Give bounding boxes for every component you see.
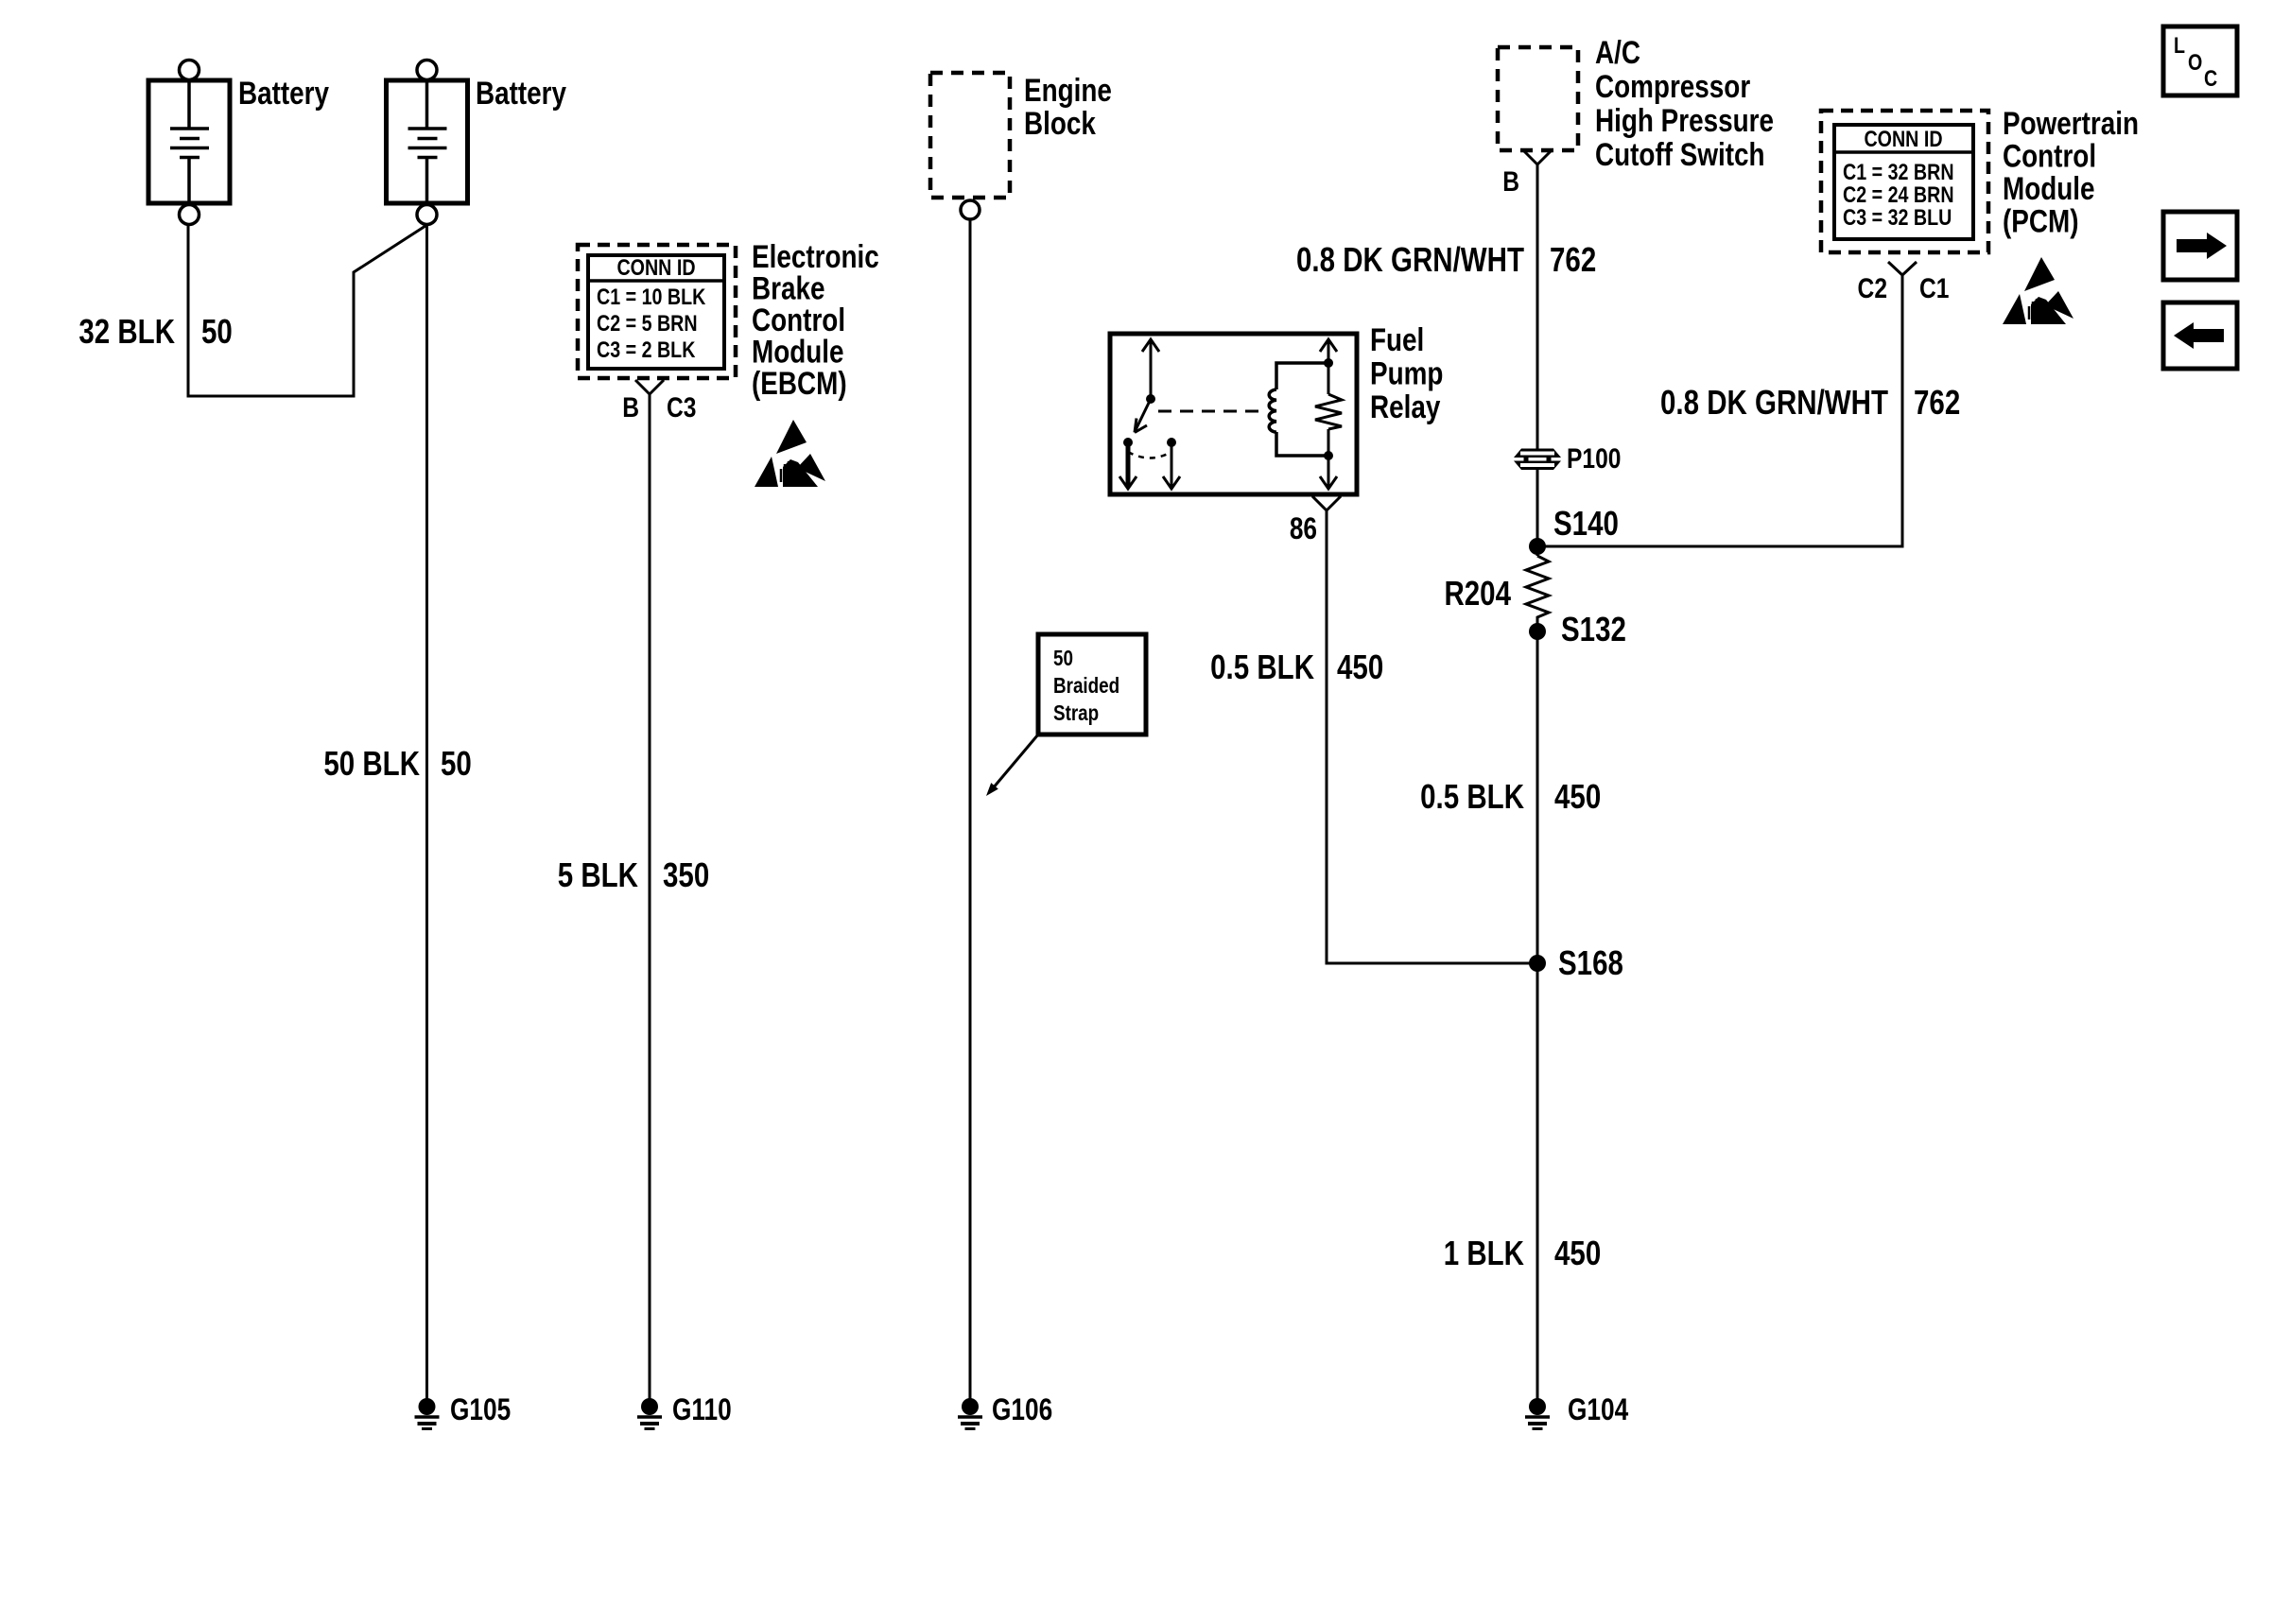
LOC legend box bbox=[2163, 26, 2237, 95]
svg-text:Fuel: Fuel bbox=[1370, 321, 1424, 357]
svg-text:50: 50 bbox=[441, 744, 472, 782]
svg-text:32 BLK: 32 BLK bbox=[78, 312, 175, 350]
svg-text:1 BLK: 1 BLK bbox=[1444, 1234, 1524, 1271]
svg-text:50 BLK: 50 BLK bbox=[323, 744, 420, 782]
svg-text:L: L bbox=[2174, 32, 2185, 58]
relay pin 86 fork bbox=[1312, 496, 1341, 510]
svg-text:CONN ID: CONN ID bbox=[1864, 126, 1942, 151]
svg-text:5 BLK: 5 BLK bbox=[558, 855, 638, 893]
svg-text:C1 = 10 BLK: C1 = 10 BLK bbox=[597, 284, 705, 309]
svg-text:C2 = 5 BRN: C2 = 5 BRN bbox=[597, 310, 698, 336]
wire battery B2 to G105 bbox=[425, 224, 428, 1407]
engine block terminal circle bbox=[961, 200, 980, 219]
relay contact pin right bbox=[1167, 438, 1176, 447]
relay switch common up arrow bbox=[1150, 340, 1153, 399]
svg-text:0.5 BLK: 0.5 BLK bbox=[1210, 648, 1314, 685]
battery B2 top terminal circle bbox=[417, 60, 437, 80]
ground G104 bbox=[1525, 1398, 1550, 1429]
svg-text:0.5 BLK: 0.5 BLK bbox=[1420, 777, 1524, 815]
svg-text:G105: G105 bbox=[450, 1394, 511, 1427]
svg-text:Cutoff Switch: Cutoff Switch bbox=[1595, 136, 1765, 172]
svg-text:G104: G104 bbox=[1568, 1394, 1629, 1427]
EBCM connector dashed box bbox=[578, 245, 736, 378]
svg-text:Battery: Battery bbox=[476, 75, 567, 111]
svg-text:G110: G110 bbox=[672, 1394, 732, 1427]
svg-text:R204: R204 bbox=[1444, 574, 1511, 612]
braided strap callout box bbox=[1038, 634, 1146, 734]
svg-text:Compressor: Compressor bbox=[1595, 68, 1750, 104]
svg-text:450: 450 bbox=[1554, 1234, 1601, 1271]
battery B2 cell plates bbox=[408, 80, 447, 203]
relay dashed contact arc bbox=[1128, 452, 1171, 458]
wire engine block to G106 bbox=[969, 219, 972, 1407]
A/C switch fork bbox=[1523, 150, 1552, 164]
svg-text:Powertrain: Powertrain bbox=[2003, 105, 2139, 141]
svg-text:S140: S140 bbox=[1553, 504, 1619, 542]
wire battery B1 to battery B2 jumper bbox=[188, 224, 427, 396]
EBCM CONN ID table bbox=[588, 255, 724, 369]
svg-text:0.8 DK GRN/WHT: 0.8 DK GRN/WHT bbox=[1660, 383, 1888, 421]
svg-text:Engine: Engine bbox=[1024, 72, 1112, 108]
svg-text:450: 450 bbox=[1337, 648, 1383, 685]
svg-text:762: 762 bbox=[1550, 240, 1596, 278]
P100 pass-through grommet bbox=[1514, 449, 1561, 471]
A/C cutoff switch dashed box bbox=[1498, 47, 1578, 150]
svg-text:Block: Block bbox=[1024, 105, 1097, 141]
right arrow nav box bbox=[2163, 212, 2237, 280]
splice S168 bbox=[1529, 955, 1546, 972]
PCM fork bbox=[1888, 262, 1917, 275]
battery B1 bottom terminal circle bbox=[180, 205, 200, 225]
wire EBCM to G110 bbox=[649, 394, 651, 1407]
svg-text:Pump: Pump bbox=[1370, 355, 1443, 391]
battery B2 bottom terminal circle bbox=[417, 205, 437, 225]
svg-text:Module: Module bbox=[2003, 170, 2095, 206]
svg-text:86: 86 bbox=[1290, 513, 1317, 546]
wire relay 86 to S168 bbox=[1327, 510, 1537, 963]
battery B2 box bbox=[387, 80, 468, 203]
splice S132 bbox=[1529, 623, 1546, 640]
relay coil bbox=[1269, 389, 1276, 432]
splice S140 bbox=[1529, 538, 1546, 555]
svg-text:B: B bbox=[1502, 165, 1519, 198]
svg-text:Relay: Relay bbox=[1370, 389, 1441, 424]
svg-text:Braided: Braided bbox=[1053, 674, 1119, 698]
PCM connector dashed box bbox=[1821, 111, 1988, 252]
svg-text:B: B bbox=[622, 391, 639, 423]
svg-text:High Pressure: High Pressure bbox=[1595, 102, 1774, 138]
svg-text:C: C bbox=[2204, 65, 2217, 91]
svg-text:C3 = 2 BLK: C3 = 2 BLK bbox=[597, 337, 696, 362]
svg-text:0.8 DK GRN/WHT: 0.8 DK GRN/WHT bbox=[1296, 240, 1524, 278]
svg-text:50: 50 bbox=[201, 312, 233, 350]
svg-text:P100: P100 bbox=[1567, 442, 1621, 475]
relay dashed actuation line bbox=[1158, 410, 1265, 413]
svg-text:C3 = 32 BLU: C3 = 32 BLU bbox=[1843, 204, 1952, 230]
svg-text:C1: C1 bbox=[1919, 272, 1949, 304]
svg-text:C3: C3 bbox=[667, 391, 696, 423]
braided strap arrow bbox=[993, 734, 1038, 788]
svg-text:O: O bbox=[2188, 49, 2202, 75]
battery B1 box bbox=[148, 80, 230, 203]
svg-text:A/C: A/C bbox=[1595, 34, 1640, 70]
svg-text:S168: S168 bbox=[1558, 943, 1623, 981]
svg-text:C2: C2 bbox=[1858, 272, 1887, 304]
wire A/C switch down to G104 bbox=[1536, 164, 1539, 1407]
relay coil vertical line with arrows bbox=[1327, 340, 1330, 488]
svg-text:Strap: Strap bbox=[1053, 701, 1099, 725]
fuel pump relay box bbox=[1110, 334, 1357, 494]
relay movable contact arm bbox=[1135, 399, 1151, 432]
svg-text:350: 350 bbox=[663, 855, 709, 893]
ground G110 bbox=[637, 1398, 662, 1429]
ESD symbol PCM bbox=[2003, 257, 2073, 324]
left arrow nav box bbox=[2163, 302, 2237, 369]
resistor R204 bbox=[1526, 556, 1549, 619]
EBCM connector fork bbox=[635, 380, 664, 394]
svg-text:50: 50 bbox=[1053, 647, 1073, 670]
svg-text:Battery: Battery bbox=[238, 75, 330, 111]
engine block dashed box bbox=[930, 73, 1010, 198]
wire S140 to PCM bbox=[1537, 275, 1902, 546]
ground G106 bbox=[958, 1398, 982, 1429]
PCM CONN ID table bbox=[1834, 125, 1973, 239]
battery B1 top terminal circle bbox=[180, 60, 200, 80]
ground G105 bbox=[415, 1398, 440, 1429]
battery B1 cell plates bbox=[170, 80, 209, 203]
svg-text:(PCM): (PCM) bbox=[2003, 203, 2078, 239]
svg-text:G106: G106 bbox=[992, 1394, 1052, 1427]
svg-text:CONN ID: CONN ID bbox=[616, 254, 695, 280]
relay suppression resistor bbox=[1315, 394, 1342, 429]
relay coil junction dots bbox=[1324, 358, 1333, 368]
svg-text:(EBCM): (EBCM) bbox=[752, 365, 847, 401]
svg-text:S132: S132 bbox=[1561, 610, 1626, 648]
relay contact pin left bbox=[1123, 438, 1133, 447]
svg-text:762: 762 bbox=[1914, 383, 1960, 421]
svg-text:Control: Control bbox=[2003, 138, 2096, 174]
svg-text:450: 450 bbox=[1554, 777, 1601, 815]
ESD symbol EBCM bbox=[755, 420, 825, 487]
